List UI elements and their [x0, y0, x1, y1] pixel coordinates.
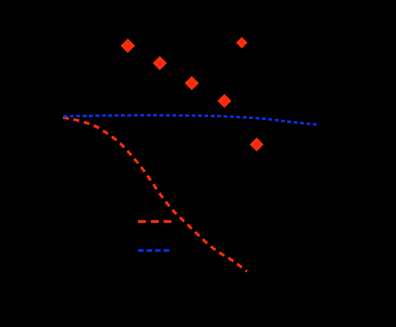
data point marker 4 (red diamond) [217, 94, 231, 108]
data point marker 1 (red diamond) [121, 38, 136, 53]
legend sample: blue dashed line [138, 249, 172, 251]
red dashed curve (descending model line) [63, 118, 247, 272]
legend sample: red dashed line [138, 220, 172, 223]
data point marker 3 (red diamond) [185, 76, 199, 90]
data point marker 6 (red diamond) [250, 138, 264, 152]
data point marker 5 (small red diamond) [236, 37, 248, 49]
blue dashed curve (nearly flat model line) [64, 115, 318, 124]
data point marker 2 (red diamond) [153, 56, 167, 70]
